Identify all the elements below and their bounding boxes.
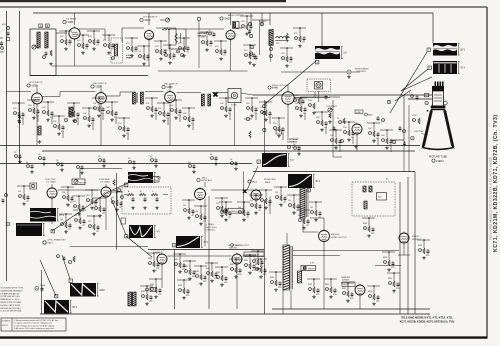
svg-text:6CB6: 6CB6 [32, 85, 39, 88]
wire V4 top drop [250, 13, 252, 25]
wire bus y249 [148, 249, 264, 251]
v5 cathode coil [38, 126, 42, 143]
cluster agc bus [297, 209, 310, 229]
waveform pointer box 8 [55, 295, 58, 299]
tube V2 label [140, 17, 158, 23]
svg-text:6W4GT: 6W4GT [342, 280, 350, 282]
svg-text:ION TRAP: ION TRAP [414, 130, 424, 133]
wire hv rect [398, 244, 410, 255]
svg-text:6.3V: 6.3V [310, 263, 315, 265]
speaker jack [197, 17, 201, 68]
wire damper drop [359, 296, 361, 310]
wire v6 drop [100, 104, 102, 146]
cluster decouple g [128, 158, 136, 169]
svg-text:1M: 1M [73, 201, 76, 203]
svg-text:HORIZ HOLD: HORIZ HOLD [230, 211, 242, 213]
svg-text:5%: 5% [191, 123, 194, 125]
notes table box [1, 318, 66, 331]
horiz hold control boxed [224, 209, 243, 214]
svg-text:HORIZ OUTPUT: HORIZ OUTPUT [331, 237, 347, 239]
cluster ps filt a [307, 278, 320, 298]
tube V18 hv rect 1B3 [399, 232, 409, 245]
svg-text:CONTRAST: CONTRAST [287, 138, 299, 141]
svg-text:PICTURE TUBE: PICTURE TUBE [429, 156, 448, 159]
tuner boxed letter A [39, 24, 43, 28]
cluster damp boost [367, 285, 380, 305]
cluster agc filt [274, 186, 287, 206]
cluster inv load [93, 197, 106, 217]
tube V18 label [412, 236, 422, 241]
tube V8 label [268, 85, 288, 90]
svg-text:1. Measurements made with VTVM: 1. Measurements made with VTVM, 117V AC … [14, 319, 60, 322]
svg-text:VOLTAGES WITH VTVM: VOLTAGES WITH VTVM [0, 287, 23, 290]
cluster focus pot [387, 272, 400, 292]
cluster v7 screen [169, 99, 182, 122]
svg-text:4.5MC: 4.5MC [293, 95, 299, 97]
cluster v6 agc [117, 117, 130, 140]
cluster decouple d [56, 160, 64, 171]
cluster crt grid [412, 115, 420, 124]
svg-text:20MF: 20MF [40, 285, 46, 287]
svg-text:5%: 5% [126, 133, 129, 135]
wire agc drop [269, 197, 271, 215]
cluster vert bal [215, 266, 228, 286]
svg-text:(V): (V) [343, 52, 346, 55]
wire v3 cath drop [230, 40, 232, 72]
svg-text:6AU6: 6AU6 [145, 19, 152, 22]
svg-text:1M: 1M [62, 192, 65, 194]
wire if strip f [212, 92, 228, 94]
svg-text:1M: 1M [216, 203, 219, 205]
wire rail x116 [115, 173, 117, 250]
tube V9 label [355, 110, 374, 117]
svg-text:1M: 1M [220, 207, 223, 209]
tube V17 label [331, 234, 347, 239]
wire bus y13 [33, 12, 433, 14]
vert output label text [231, 244, 250, 248]
svg-text:70 V: 70 V [203, 241, 208, 244]
svg-text:V LIN: V LIN [153, 180, 159, 182]
cluster decouple a [14, 152, 22, 163]
svg-text:30 V: 30 V [315, 180, 320, 183]
cluster sync grid [17, 185, 30, 205]
cluster crt cathode [409, 93, 419, 101]
cluster agc decouple [125, 37, 138, 57]
volume pot [160, 18, 170, 30]
pointer diag to W4 box [247, 166, 258, 190]
tube V1 label [63, 19, 77, 25]
pointer diagonal sync waveform [52, 192, 108, 231]
cluster phase det c [87, 215, 100, 235]
waveform pointer box 7 [69, 279, 72, 283]
cluster heater [269, 271, 282, 291]
wire left rail x6 [6, 11, 8, 281]
svg-text:COILS IN MH SHOWN.: COILS IN MH SHOWN. [0, 311, 22, 313]
cluster vert osc left [57, 255, 76, 264]
wire v3 plate [236, 27, 242, 29]
waveform pointer box 3 [316, 61, 319, 65]
waveform W12 vert saw 2 [44, 300, 78, 314]
detector crystal [244, 117, 252, 121]
wire horiz out top [310, 218, 324, 230]
cluster volume control [177, 37, 190, 57]
waveform pointer box 10 [125, 235, 128, 239]
wire rail x408 [407, 177, 409, 314]
cluster decouple c [38, 154, 46, 165]
svg-text:1/2 12AU7: 1/2 12AU7 [46, 181, 57, 184]
svg-text:HORIZ AFC: HORIZ AFC [201, 179, 213, 182]
cluster crt bias [377, 100, 406, 146]
wire rail x243 [243, 172, 245, 214]
svg-text:5 V: 5 V [290, 159, 294, 162]
wire v1 cath drop [74, 39, 76, 66]
svg-text:TELE KING MODELS KT1, KT2, KT1: TELE KING MODELS KT1, KT2, KT1A, KT2I, [401, 317, 453, 320]
waveform W11 vert out saw [70, 283, 105, 297]
svg-text:1M: 1M [195, 211, 198, 213]
cluster cathode R11 [137, 45, 150, 65]
sync phase det label [43, 239, 67, 245]
svg-text:1M: 1M [74, 215, 77, 217]
wire bus y145 [0, 145, 420, 147]
waveform W5 sync out [288, 174, 321, 188]
cluster phase det b [73, 209, 86, 229]
wire bus y309 [272, 308, 430, 310]
cluster decouple i [188, 162, 196, 173]
tube V9 sound if amp [352, 123, 362, 136]
cluster det peaking [219, 97, 232, 120]
tube V15 horiz disch [232, 253, 242, 266]
cluster output coupling [240, 15, 253, 35]
svg-text:6AU6: 6AU6 [265, 181, 271, 184]
wire if strip c [107, 92, 133, 96]
svg-text:1M: 1M [88, 221, 91, 223]
cluster vert out grid [147, 252, 160, 272]
svg-text:K=1000, CAPS IN MF: K=1000, CAPS IN MF [0, 304, 21, 307]
svg-text:V-6AL5: V-6AL5 [260, 20, 267, 23]
wire bus y95 video to CRT [253, 94, 432, 96]
svg-text:5%: 5% [178, 115, 181, 117]
contrast control dark label [287, 138, 301, 149]
waveform W10 vert drive [176, 236, 209, 248]
cluster sound amp plate [380, 129, 393, 152]
tube V14 label [151, 250, 166, 255]
vert output transformer T9 [128, 292, 136, 306]
cluster decouple b [26, 162, 34, 173]
pointer diagonal to video waveform [265, 61, 316, 104]
cluster afc filter [182, 199, 195, 219]
trap adjust box [228, 89, 241, 107]
bottom right model text [400, 317, 455, 324]
wire if strip g [241, 93, 253, 95]
vert lin control boxed [146, 177, 159, 183]
waveform W7 sync sep [30, 208, 65, 222]
cluster interstage audio [208, 30, 216, 38]
tube V10 sync sep half 12AU7 [47, 187, 57, 200]
margin text model list line 1 [493, 114, 499, 252]
wire ps top lines [293, 251, 399, 256]
svg-text:5%: 5% [21, 118, 24, 120]
svg-text:5%: 5% [338, 145, 341, 147]
svg-text:6AH6: 6AH6 [272, 87, 279, 90]
svg-text:1B3GT: 1B3GT [412, 236, 420, 238]
power transformer T8 [283, 245, 302, 290]
cluster det load [182, 107, 195, 130]
svg-text:READINGS +/- 10%.: READINGS +/- 10%. [0, 298, 19, 301]
waveform W4 agc scurve [262, 153, 294, 167]
sound col circles [248, 20, 273, 66]
dashed box sound takeoff [111, 38, 123, 63]
cluster v5 grid [12, 102, 25, 125]
svg-text:V-4 MIXER: V-4 MIXER [66, 19, 77, 21]
wire det drop [234, 103, 236, 146]
cluster sawtooth cap [149, 278, 162, 298]
svg-text:1ST VIDEO IF: 1ST VIDEO IF [29, 82, 43, 84]
svg-text:1M: 1M [250, 200, 253, 202]
svg-text:KEYED AGC: KEYED AGC [264, 178, 277, 181]
sound takeoff coil [112, 44, 118, 60]
wire v1 grid [56, 32, 67, 34]
cluster sync cathode [72, 195, 85, 215]
wire y99 crt [408, 98, 432, 100]
svg-text:POINTS AS SET, ALL: POINTS AS SET, ALL [0, 295, 21, 298]
cluster sound takeoff 2 [259, 101, 272, 124]
svg-text:5%: 5% [101, 113, 104, 115]
trap dark label [126, 54, 133, 60]
cluster vo cath [140, 285, 153, 305]
cluster audio cathode [214, 40, 227, 60]
cluster ps filt c [341, 282, 354, 302]
cluster v5 cathode [27, 99, 40, 122]
crt grid components [411, 94, 448, 140]
wire sync row b [112, 190, 123, 192]
pointer diagonal to R12 [40, 260, 56, 296]
cluster decouple e [76, 163, 84, 174]
discriminator box [169, 29, 186, 57]
video waveform drop wire [321, 13, 323, 46]
svg-text:21EP4: 21EP4 [436, 160, 444, 163]
rail cap stack [18, 114, 21, 124]
svg-text:1M: 1M [86, 195, 89, 197]
svg-text:5%: 5% [303, 113, 306, 115]
svg-text:CONTROL: CONTROL [356, 71, 367, 73]
wire bus y75 [30, 75, 148, 77]
wire v1 plate [79, 29, 105, 40]
svg-text:6AL5: 6AL5 [48, 242, 54, 245]
svg-text:5%: 5% [254, 113, 257, 115]
svg-text:SYNC AMP: SYNC AMP [99, 178, 110, 181]
cluster if trap [102, 34, 115, 54]
cluster v5 agc [52, 115, 65, 138]
tuner boxed letter B [46, 24, 50, 28]
svg-text:HORIZ DISCH: HORIZ DISCH [228, 245, 242, 247]
sound discriminator transformer T2 [269, 30, 290, 46]
if transformer T5 [133, 92, 144, 104]
tuner cathode resistor R2 [43, 50, 53, 65]
svg-text:5%: 5% [114, 117, 117, 119]
cluster decouple f [98, 156, 106, 167]
tube V3 audio output 6AQ5 [226, 29, 235, 41]
if choke mid [64, 107, 76, 123]
cluster sync load [61, 186, 74, 206]
svg-text:SYNC SEP: SYNC SEP [45, 179, 56, 181]
wire v2 cath drop [148, 40, 150, 67]
svg-text:6CB6: 6CB6 [167, 86, 174, 89]
cluster kine grid2 [333, 118, 358, 148]
svg-text:KC71, KD21M, KD322B, KD71, KD7: KC71, KD21M, KD322B, KD71, KD72B, (Ch. T… [493, 114, 499, 252]
waveform pointer box 5 [307, 189, 310, 193]
svg-text:1M: 1M [310, 207, 313, 209]
width coil boxed [301, 266, 316, 271]
tube V12 horiz osc 6SN7 [195, 187, 206, 201]
cluster disch cath [243, 254, 256, 274]
svg-text:NOTE: NOTE [2, 325, 8, 327]
frame bottom thick rule [0, 336, 488, 338]
wire ps transformer top [286, 233, 288, 245]
svg-text:3. All values 10% unless other: 3. All values 10% unless otherwise speci… [14, 327, 55, 330]
cap crt coupling [300, 91, 340, 102]
tube V10 label [45, 179, 57, 184]
svg-text:UNLESS NOTED. ALL: UNLESS NOTED. ALL [0, 307, 21, 310]
cluster agc keyer [293, 144, 301, 155]
wire bus y171 [253, 171, 415, 173]
pointer diagonal to waveform R2 [401, 69, 428, 91]
cluster grid leak R15 [200, 31, 213, 51]
height control boxed [72, 179, 87, 185]
tube V6 2nd video if 6CB6 [96, 91, 107, 105]
wire v2 plate [156, 28, 176, 45]
wire left rail x19 [19, 11, 21, 164]
frame right border [486, 7, 488, 338]
wire v12 drop [204, 199, 206, 246]
cluster kine bypass [315, 111, 328, 134]
wire crt rail x404b [403, 140, 405, 172]
tube V4 sound if jack [260, 20, 267, 26]
deflection yoke dashed box [352, 182, 395, 216]
phono jack symbol [315, 82, 323, 90]
vert hold control label [206, 224, 218, 231]
cluster plate load R7 [76, 34, 89, 54]
cluster osc grid [249, 194, 262, 214]
tube V5 label [27, 82, 43, 88]
cluster contrast [326, 105, 338, 123]
keyed agc label [248, 178, 277, 184]
dashed integrator box [122, 187, 171, 214]
flyback transformer T7 [300, 188, 308, 218]
wire horiz out drop [323, 242, 325, 309]
wire vert out row [168, 255, 232, 257]
wire bus y151 [42, 150, 415, 152]
pointer diag ion trap [395, 90, 411, 101]
notes paragraph block [0, 287, 23, 313]
cluster hv filter [417, 239, 430, 259]
svg-text:1M: 1M [183, 205, 186, 207]
svg-text:HEIGHT: HEIGHT [79, 183, 87, 185]
waveform pointer box 1 [427, 48, 430, 52]
svg-text:6AU6: 6AU6 [252, 181, 258, 184]
svg-text:75 V: 75 V [460, 67, 465, 70]
waveform pointer box 6 [125, 183, 128, 187]
wire v5 drop [36, 104, 38, 146]
svg-text:2ND VIDEO IF: 2ND VIDEO IF [93, 83, 107, 85]
wire V1 top drop [74, 13, 76, 25]
left margin cut parts [0, 38, 4, 52]
svg-text:6CB6: 6CB6 [68, 21, 75, 24]
cluster v6 screen [105, 101, 118, 124]
svg-text:CIRCUIT: CIRCUIT [198, 36, 207, 38]
svg-text:6AQ5: 6AQ5 [225, 18, 232, 21]
svg-text:3RD VIDEO IF: 3RD VIDEO IF [164, 84, 178, 86]
cluster decouple k [230, 159, 238, 170]
tube V7 3rd video if 6CB6 [165, 90, 176, 104]
cluster 6.3v winding [302, 263, 315, 267]
wire ps bottom [283, 290, 291, 314]
svg-text:VIDEO OUTPUT: VIDEO OUTPUT [272, 85, 288, 87]
svg-text:4.7 MEG: 4.7 MEG [206, 224, 214, 226]
svg-text:3.9K: 3.9K [308, 100, 313, 102]
waveform pointer box 2 [428, 66, 431, 70]
wire if strip d [145, 91, 164, 93]
svg-text:SYNC PHASE DET: SYNC PHASE DET [48, 239, 67, 242]
svg-text:5%: 5% [76, 118, 79, 120]
cluster kine cathode [329, 129, 342, 152]
if transformer T6 [202, 94, 211, 106]
pointer diagonal to R9 [126, 236, 152, 257]
tube V15 label [228, 245, 242, 250]
cluster ps filt b [324, 278, 337, 298]
svg-text:5%: 5% [61, 131, 64, 133]
ion trap label [414, 130, 426, 135]
wire rail x174 [173, 250, 175, 310]
svg-text:DAMPER: DAMPER [341, 276, 350, 279]
wire disch out row [243, 255, 265, 257]
wire v15 drop [236, 265, 238, 310]
wire rail x333 [333, 100, 342, 157]
focus control [35, 285, 46, 292]
cluster if choke a [67, 102, 80, 125]
wire rail x415 [414, 172, 416, 314]
tuner fine tuning pot [32, 45, 36, 49]
margin text model list line 2 [489, 157, 493, 240]
cluster grid cap C5 [59, 30, 72, 50]
cluster v6 cathode [92, 97, 105, 120]
tube V12 label [197, 176, 213, 182]
cluster ps in [254, 258, 267, 278]
wire bus y163 [0, 163, 252, 165]
cluster left edge r3 [2, 194, 10, 226]
svg-text:4.5 MC: 4.5 MC [126, 54, 133, 57]
svg-text:1ST SOUND IF: 1ST SOUND IF [143, 17, 158, 19]
tube V11 sync inv half 12AU7 [101, 186, 111, 199]
wire video plate [295, 92, 331, 98]
yoke horiz coils [363, 179, 389, 210]
cluster afc cap [194, 205, 207, 225]
wire sound row [252, 19, 270, 21]
tube V17 horiz output 6BQ6 [319, 229, 330, 243]
waveform pointer box 9 [51, 230, 54, 234]
svg-text:TELE KING MODELS KT1, KT2, KT1: TELE KING MODELS KT1, KT2, KT1A, KT2I, K… [489, 157, 493, 240]
waveform W3 video output [315, 46, 347, 59]
cluster horiz stab [215, 197, 228, 217]
tuner box [30, 29, 56, 76]
cluster video load [308, 100, 316, 114]
cluster sound amp grid [367, 122, 380, 145]
wire crt feed x404 [390, 95, 404, 140]
svg-text:4 V: 4 V [156, 231, 160, 234]
cluster trap bypass [245, 97, 258, 120]
tube V3 label [220, 14, 245, 21]
bowtie marker afc [243, 190, 247, 194]
brightness control [337, 69, 369, 79]
